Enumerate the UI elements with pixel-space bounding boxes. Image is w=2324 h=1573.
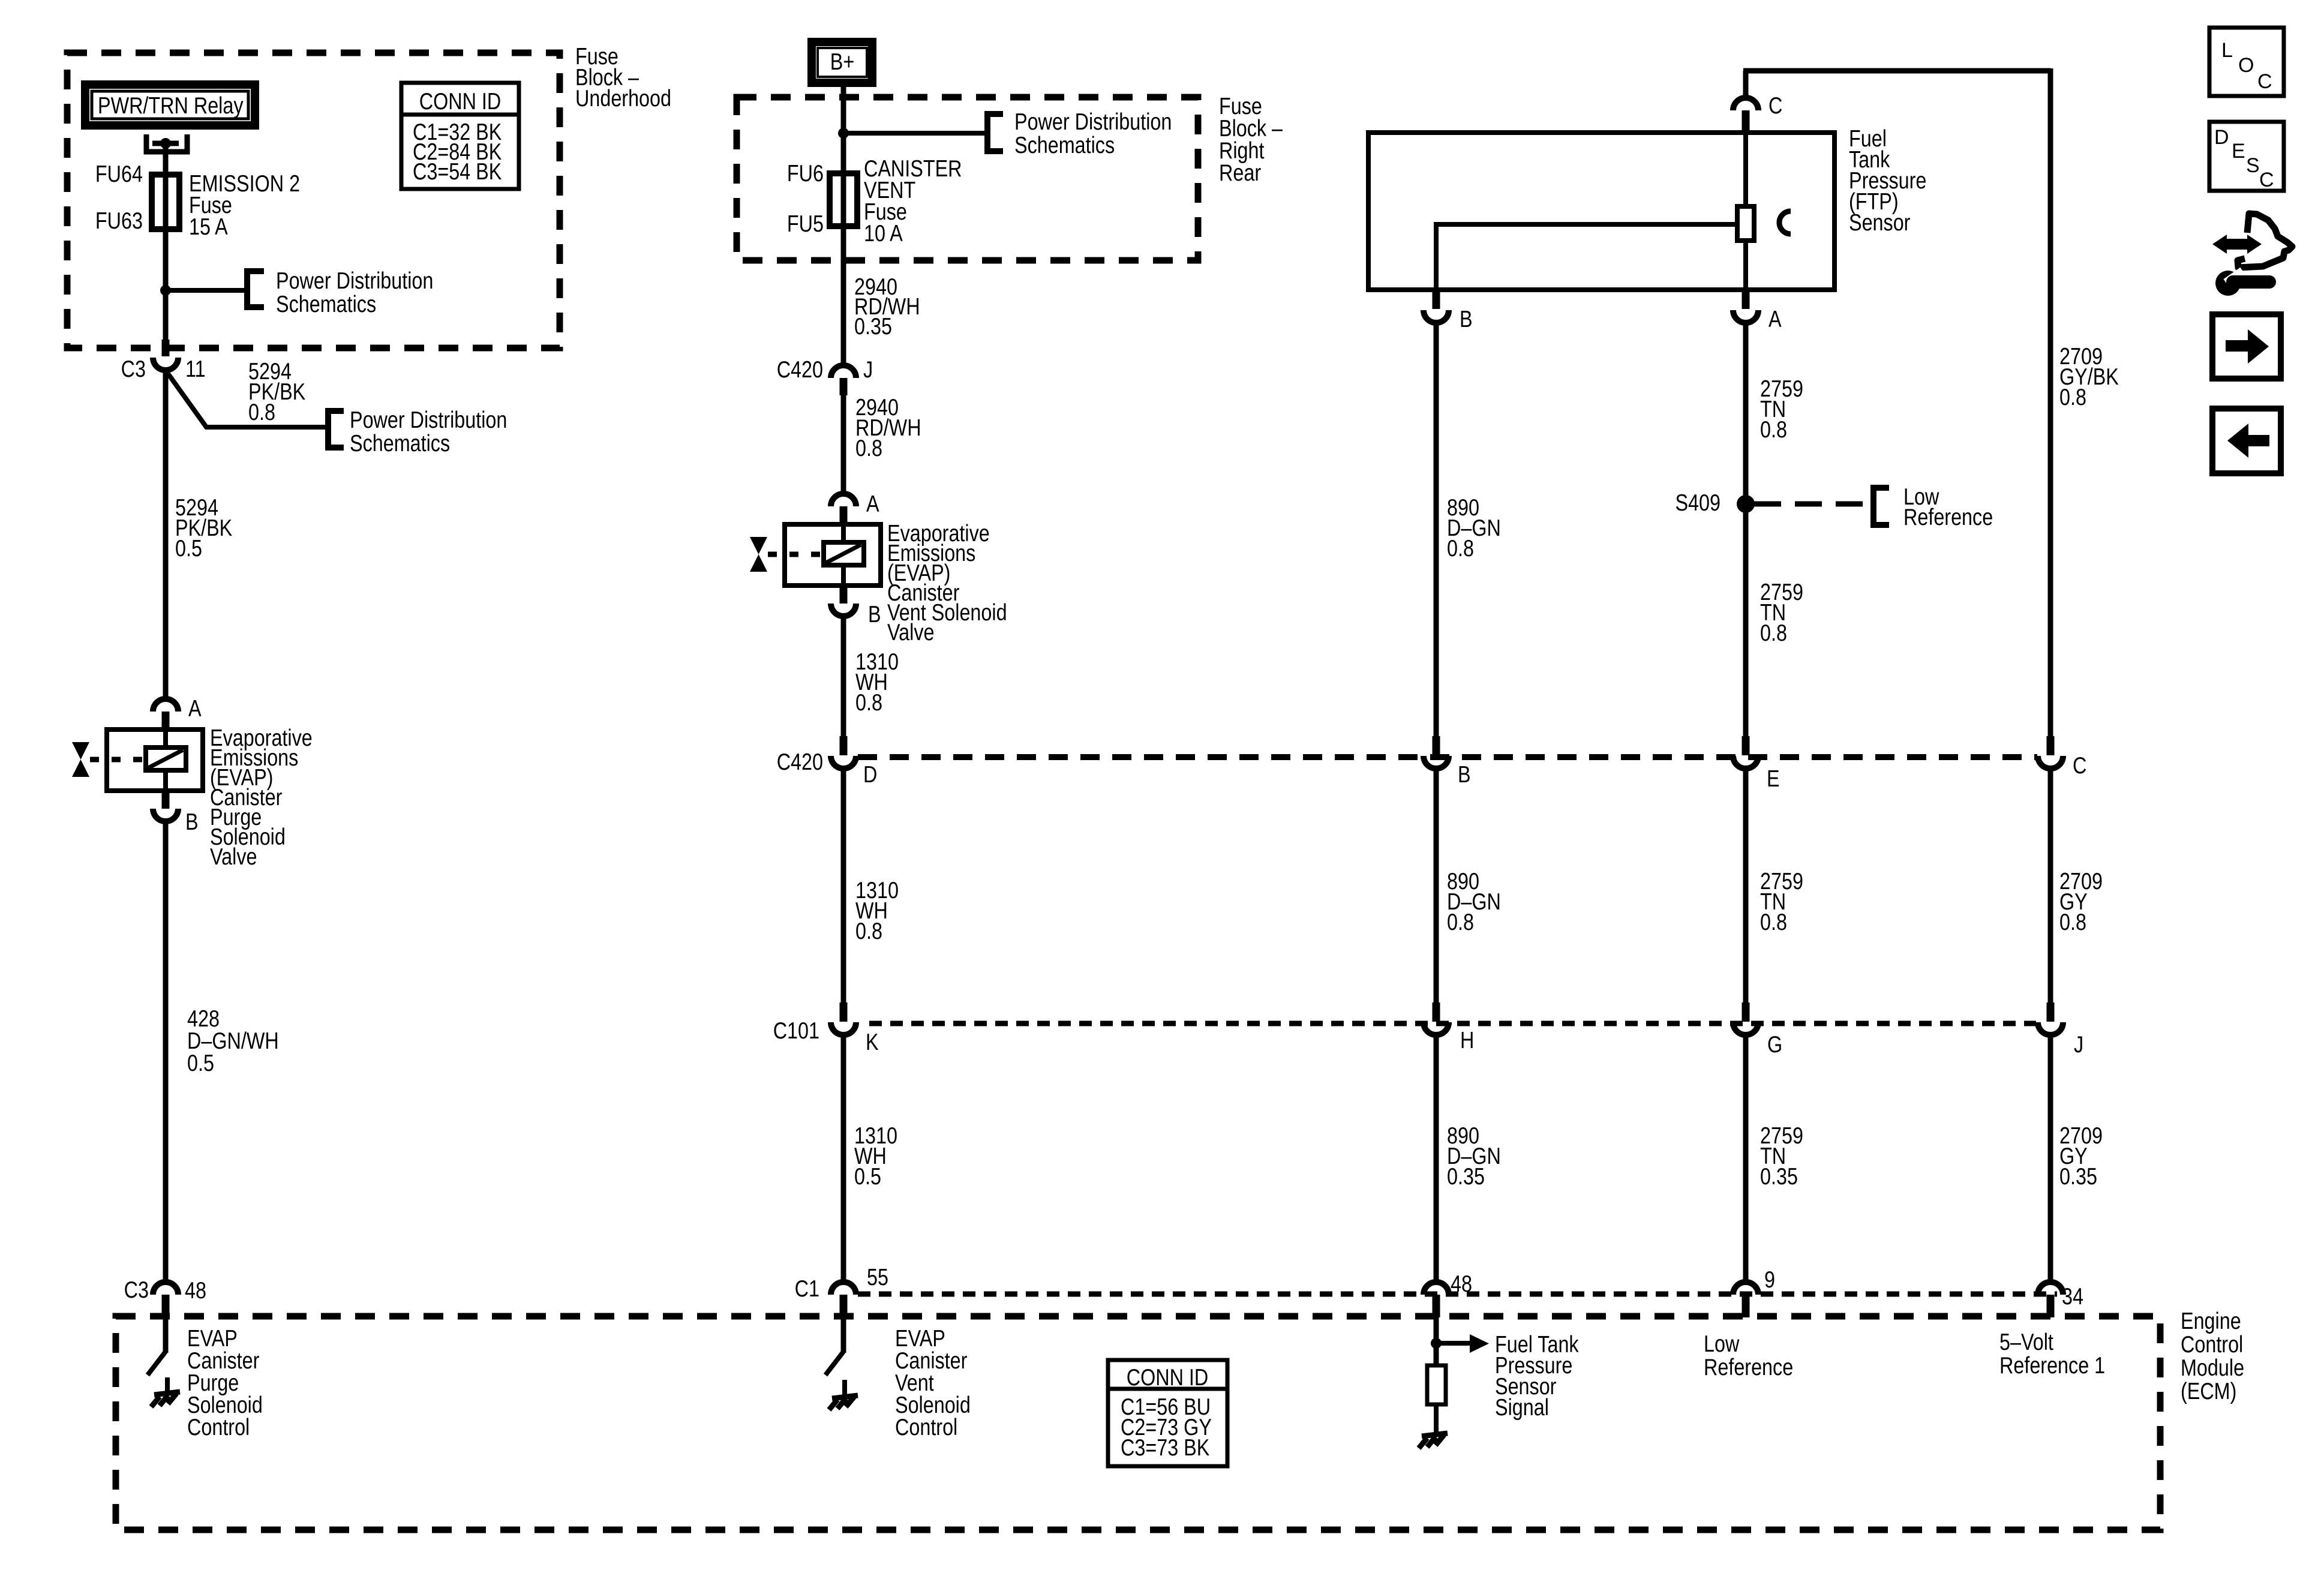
- wire top horizontal to 5-volt column: [1743, 68, 2050, 74]
- FTP internal horizontal wire to pin B: [1436, 222, 1737, 227]
- connector C101 pin K arc: [831, 1022, 856, 1035]
- connector C1 pin 34 arc: [2038, 1282, 2063, 1295]
- junction dot to power distribution branch: [160, 285, 171, 296]
- connector C3 pin 11 arc: [153, 358, 178, 370]
- icon DESC button: [2209, 122, 2284, 191]
- FTP sensor pin B arc: [1424, 310, 1449, 323]
- svg-text:G: G: [1767, 1031, 1782, 1057]
- wire into ECM fuel tank pressure signal: [1434, 1317, 1439, 1367]
- wire C420 E to C101 G: [1743, 769, 1749, 1011]
- connector C1 pin 48 arc: [1424, 1282, 1449, 1295]
- node S409 splice dot: [1737, 495, 1755, 513]
- icon wrench: [2215, 271, 2241, 296]
- svg-text:9: 9: [1764, 1266, 1775, 1292]
- wire C101 J to C1 pin 34: [2048, 1035, 2053, 1281]
- svg-text:K: K: [866, 1029, 879, 1055]
- wire into ECM vent control: [841, 1317, 846, 1353]
- purge valve pin B arc: [153, 809, 178, 821]
- svg-text:CONN ID: CONN ID: [1127, 1364, 1209, 1390]
- vent valve pin B terminal: [840, 586, 848, 604]
- svg-text:FU63: FU63: [95, 208, 143, 233]
- purge valve pin A terminal: [162, 712, 170, 730]
- junction dot at relay pin: [160, 138, 171, 149]
- ground symbol ECM signal: [1422, 1433, 1448, 1436]
- vent valve pin A terminal: [840, 506, 848, 524]
- svg-text:C: C: [2073, 752, 2086, 778]
- dashed link S409 to low reference: [1754, 502, 1867, 507]
- svg-text:D: D: [863, 761, 877, 787]
- bracket power distribution schematics (right rear): [987, 114, 1003, 151]
- connector C420 pin B arc: [1424, 756, 1449, 769]
- svg-text:C: C: [2259, 169, 2274, 191]
- wire C420 D to C101 K: [841, 769, 846, 1011]
- connector C420 pin J terminal: [840, 378, 848, 395]
- ground stub vent driver: [842, 1380, 847, 1396]
- svg-text:C3: C3: [124, 1277, 149, 1302]
- junction dot FTP signal: [1431, 1338, 1442, 1349]
- FTP sensor pin A terminal: [1742, 290, 1750, 309]
- FTP sensor pin A arc: [1733, 310, 1758, 323]
- connector C420 pin J arc: [831, 365, 856, 378]
- svg-text:55: 55: [867, 1264, 888, 1290]
- vent valve coil: [824, 542, 864, 565]
- wire C420 B to C101 H: [1434, 769, 1439, 1011]
- connector C101 pin H terminal: [1433, 1002, 1440, 1022]
- connector C1 pin 55 arc: [831, 1282, 856, 1295]
- bracket low reference (S409): [1873, 488, 1889, 525]
- connector C420 pin E arc: [1733, 756, 1758, 769]
- relay pin bracket: [146, 134, 187, 152]
- wire C101 G to C1 pin 9: [1743, 1035, 1749, 1281]
- wire purge valve to C3 pin 48: [163, 821, 169, 1281]
- svg-text:A: A: [188, 695, 202, 721]
- connector C3 pin 48 terminal: [162, 1295, 170, 1317]
- svg-text:S: S: [2246, 154, 2260, 177]
- purge valve bowtie valve symbol: [72, 742, 89, 760]
- FTP internal wire down to pin B: [1434, 222, 1439, 291]
- svg-text:L: L: [2221, 39, 2233, 62]
- bracket power distribution schematics (underhood): [247, 271, 264, 307]
- FTP sensor pin B terminal: [1433, 290, 1440, 309]
- svg-text:B: B: [1460, 306, 1473, 332]
- svg-text:48: 48: [1451, 1271, 1472, 1296]
- svg-text:C420: C420: [777, 749, 823, 775]
- connector C1 pin 55 terminal: [840, 1295, 848, 1317]
- vent valve wire pin A to coil: [841, 524, 846, 542]
- battery feed B+ label box: [812, 42, 872, 83]
- ground symbol purge driver: [154, 1392, 180, 1395]
- icon back arrow button: [2212, 409, 2281, 473]
- wire junction to C3 pin 11: [163, 290, 169, 341]
- wire C3 pin 11 to purge valve pin A: [163, 370, 169, 700]
- connector row C101 dashed line: [869, 1021, 2036, 1026]
- switch vent control driver: [825, 1352, 843, 1375]
- purge valve wire coil to pin B: [163, 770, 168, 791]
- resistor ECM pull resistor: [1427, 1365, 1446, 1404]
- wire resistor to ground: [1434, 1404, 1439, 1434]
- wire relay to fuse FU64: [163, 143, 169, 177]
- fuse F1 EMISSION 2: [152, 175, 179, 229]
- resistor R1 FTP sense element: [1737, 206, 1754, 241]
- vent valve actuator dashed link: [768, 552, 824, 557]
- ground symbol vent driver: [832, 1395, 858, 1398]
- svg-text:A: A: [1768, 306, 1782, 332]
- svg-text:EngineControlModule(ECM): EngineControlModule(ECM): [2181, 1308, 2244, 1404]
- icon schematic navigation part outline: [2238, 214, 2292, 268]
- wire B+ to fuse FU6: [841, 87, 846, 173]
- connector C420 pin D arc: [831, 756, 856, 769]
- bracket power distribution schematics (mid-left): [328, 411, 344, 448]
- wire through fuse to junction: [163, 175, 169, 290]
- connector row C1 dashed line: [858, 1292, 2057, 1297]
- conn id table (ECM): [1108, 1360, 1227, 1466]
- connector C420 pin B terminal: [1433, 736, 1440, 755]
- svg-text:FU5: FU5: [787, 211, 824, 236]
- ECM engine control module dashed box: [116, 1316, 2160, 1530]
- FTP sensor pin C terminal: [1742, 110, 1750, 133]
- connector C101 pin H arc: [1424, 1022, 1449, 1035]
- FTP internal wire C to resistor: [1743, 133, 1748, 206]
- wire diagonal branch from C3 pin 11: [167, 372, 328, 427]
- connector C101 pin K terminal: [840, 1002, 848, 1022]
- svg-text:C: C: [1768, 92, 1782, 118]
- svg-text:E: E: [1767, 766, 1780, 791]
- wire branch to power distribution bracket: [166, 288, 244, 293]
- wire FTP B to C420 pin B: [1434, 323, 1439, 739]
- solenoid EVAP canister purge valve box: [107, 730, 203, 791]
- fuse block underhood dashed box: [67, 53, 560, 348]
- svg-text:J: J: [863, 356, 873, 382]
- svg-text:A: A: [866, 491, 879, 517]
- svg-text:PWR/TRN Relay: PWR/TRN Relay: [98, 92, 244, 118]
- svg-text:E: E: [2232, 140, 2245, 163]
- connector C1 pin 9 arc: [1733, 1282, 1758, 1295]
- connector C101 pin J terminal: [2047, 1002, 2055, 1022]
- purge valve pin B terminal: [162, 791, 170, 809]
- connector C101 pin G arc: [1733, 1022, 1758, 1035]
- wire into ECM purge control: [163, 1317, 169, 1353]
- conn id table (underhood): [401, 83, 519, 189]
- svg-text:C1=56 BUC2=73 GYC3=73 BK: C1=56 BUC2=73 GYC3=73 BK: [1121, 1394, 1212, 1460]
- wire top feed to FTP sensor pin C: [1743, 71, 1749, 98]
- svg-text:B: B: [1458, 761, 1471, 787]
- svg-text:H: H: [1460, 1027, 1474, 1053]
- connector C1 pin 9 terminal: [1742, 1295, 1750, 1317]
- wire C420 J to vent valve: [841, 395, 846, 494]
- connector C101 pin J arc: [2038, 1022, 2063, 1035]
- purge valve actuator dashed link: [90, 757, 146, 763]
- vent valve bowtie valve symbol: [750, 537, 767, 554]
- arrow FTP signal: [1436, 1341, 1471, 1346]
- wire branch to power distribution bracket (right rear): [843, 131, 987, 136]
- switch purge control driver: [148, 1352, 166, 1375]
- connector C420 pin D terminal: [840, 736, 848, 755]
- fuse block right rear dashed box: [737, 97, 1198, 260]
- icon LOC button: [2209, 28, 2284, 96]
- svg-text:C1=32 BKC2=84 BKC3=54 BK: C1=32 BKC2=84 BKC3=54 BK: [413, 119, 502, 184]
- svg-text:FU6: FU6: [787, 160, 824, 186]
- relay PWR/TRN Relay label box: [85, 85, 255, 125]
- svg-text:C: C: [2257, 70, 2272, 93]
- vent valve wire coil to pin B: [841, 565, 846, 586]
- svg-text:C3: C3: [121, 356, 146, 382]
- svg-text:C420: C420: [777, 356, 823, 382]
- wire C420 C to C101 J: [2048, 769, 2053, 1011]
- ground stub purge driver: [165, 1377, 170, 1393]
- FTP sensor pin C arc: [1733, 98, 1758, 110]
- icon forward arrow button: [2212, 314, 2281, 379]
- connector row C420 dashed line: [858, 754, 2037, 760]
- svg-text:S409: S409: [1675, 490, 1721, 515]
- solenoid EVAP canister vent valve box: [785, 524, 881, 586]
- svg-text:CONN ID: CONN ID: [419, 88, 502, 114]
- fuse CANISTER VENT: [830, 173, 857, 226]
- svg-text:B: B: [185, 809, 199, 834]
- sensor FTP fuel tank pressure sensor box: [1368, 133, 1834, 290]
- purge valve coil: [146, 748, 186, 770]
- wire C101 H to C1 pin 48: [1434, 1035, 1439, 1281]
- svg-text:B: B: [868, 601, 881, 627]
- connector C420 pin C terminal: [2047, 736, 2055, 755]
- icon double arrow: [2224, 239, 2250, 250]
- wire vent valve to C420 pin D: [841, 616, 846, 739]
- svg-text:11: 11: [185, 356, 206, 382]
- vent valve pin B arc: [831, 604, 856, 616]
- svg-text:J: J: [2074, 1031, 2083, 1057]
- wire through canister vent fuse: [841, 170, 846, 365]
- connector C101 pin G terminal: [1742, 1002, 1750, 1022]
- svg-text:FU64: FU64: [95, 161, 143, 187]
- connector C1 pin 34 terminal: [2047, 1295, 2055, 1317]
- connector C420 pin C arc: [2038, 756, 2063, 769]
- svg-text:C1: C1: [795, 1275, 819, 1301]
- svg-text:34: 34: [2062, 1283, 2083, 1309]
- connector C1 pin 48 terminal: [1433, 1295, 1440, 1317]
- svg-text:C101: C101: [773, 1017, 819, 1043]
- FTP internal wire resistor to pin A: [1743, 241, 1748, 291]
- connector C3 pin 11 terminal: [162, 340, 170, 356]
- svg-text:B+: B+: [830, 49, 854, 74]
- junction dot branch power distribution (right rear): [838, 128, 849, 139]
- svg-text:D: D: [2214, 126, 2229, 149]
- connector C3 pin 48 arc: [153, 1282, 178, 1295]
- wire C101 K to C1 pin 55: [841, 1035, 846, 1281]
- connector C420 pin E terminal: [1742, 736, 1750, 755]
- svg-text:O: O: [2238, 54, 2254, 77]
- purge valve pin A arc: [153, 699, 178, 712]
- wire FTP A to S409: [1743, 323, 1749, 739]
- wire 5-volt reference column top: [2048, 68, 2053, 739]
- vent valve pin A arc: [831, 494, 856, 506]
- FTP wiper contact arc: [1779, 211, 1791, 234]
- purge valve wire pin A to coil: [163, 730, 168, 748]
- svg-text:48: 48: [185, 1277, 206, 1303]
